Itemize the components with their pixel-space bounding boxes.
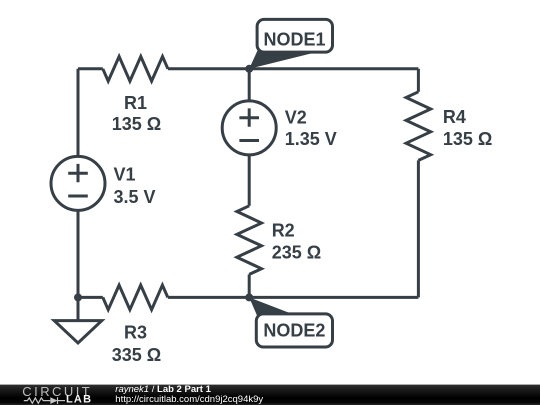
svg-text:335 Ω: 335 Ω: [112, 345, 161, 365]
NODE2 flag box: [256, 314, 332, 347]
CircuitLab logo resistor-diode glyph: [24, 397, 65, 404]
svg-text:R4: R4: [443, 107, 466, 127]
resistor R4 zigzag: [406, 92, 431, 161]
svg-text:R2: R2: [272, 221, 295, 241]
V2 plus sign: [239, 108, 259, 126]
svg-text:LAB: LAB: [66, 394, 92, 405]
svg-text:V1: V1: [114, 164, 136, 184]
voltage source V2 circle: [222, 101, 276, 155]
wire left rail upper (to V1 top): [77, 69, 80, 157]
svg-text:135 Ω: 135 Ω: [112, 114, 161, 134]
wire right rail lower (R4 bottom to bottom rail): [417, 160, 420, 297]
resistor R2 zigzag: [237, 206, 262, 275]
wire top rail left segment: [78, 67, 103, 70]
node junction dot NODE1: [245, 65, 253, 73]
voltage source V1 circle: [51, 156, 105, 210]
svg-text:V2: V2: [285, 107, 307, 127]
V1 plus sign: [68, 164, 88, 182]
svg-text:1.35 V: 1.35 V: [285, 129, 337, 149]
resistor R1 zigzag: [103, 57, 168, 82]
svg-text:3.5 V: 3.5 V: [114, 187, 156, 207]
svg-text:NODE2: NODE2: [263, 320, 325, 340]
V1 minus sign: [68, 195, 88, 198]
wire bottom rail: [78, 296, 418, 299]
NODE2 flag tail: [249, 297, 291, 315]
V2 minus sign: [239, 139, 259, 142]
svg-text:R1: R1: [124, 93, 147, 113]
svg-text:135 Ω: 135 Ω: [443, 129, 492, 149]
NODE1 flag box: [257, 19, 332, 52]
footer bar: [0, 385, 540, 405]
svg-text:http://circuitlab.com/cdn9j2cq: http://circuitlab.com/cdn9j2cq94k9y: [115, 394, 263, 405]
svg-text:235 Ω: 235 Ω: [272, 243, 321, 263]
wire R2 bottom to NODE2: [248, 274, 251, 297]
wire middle rail NODE1 to V2 top: [248, 69, 251, 101]
ground symbol: [54, 321, 102, 343]
wire top rail right segment: [168, 67, 419, 70]
wire left rail lower (V1 bottom to ground node): [77, 210, 80, 297]
node junction dot NODE2: [245, 293, 253, 301]
wire right rail upper (to R4 top): [417, 69, 420, 92]
wire ground stub: [77, 297, 80, 320]
svg-text:R3: R3: [124, 323, 147, 343]
resistor R3 zigzag: [103, 285, 168, 310]
NODE1 flag tail: [249, 51, 311, 69]
wire V2 bottom to R2 top: [248, 155, 251, 206]
node junction dot ground: [74, 293, 82, 301]
svg-text:NODE1: NODE1: [263, 30, 325, 50]
